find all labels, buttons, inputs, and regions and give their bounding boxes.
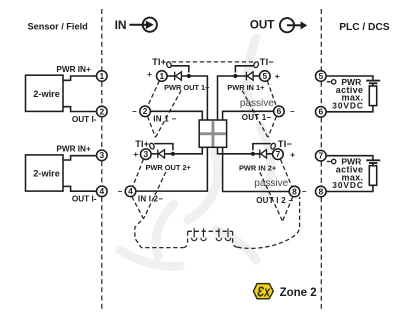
separator PLC side (dashed) [320,9,322,312]
device outline long diagonal left (dashed) [144,172,166,218]
device outline terminal5-terminal6 (dashed) [267,81,276,107]
svg-text:1: 1 [159,71,164,81]
svg-text:PWR IN 1+: PWR IN 1+ [227,83,265,92]
svg-text:OUT I-: OUT I- [72,115,97,124]
device outline terminal4 to corner zigzag (dashed) [132,197,184,248]
device outline terminal6-vertexR (dashed) [268,116,276,137]
device outline bottom right curve (dashed) [237,197,299,249]
terminal 2 device [140,106,151,117]
svg-text:PWR OUT 1+: PWR OUT 1+ [164,83,210,92]
diode D3 [158,150,165,159]
diode D4 [260,150,267,159]
test hook TI+ ch2 [149,143,155,150]
svg-text:IN 1 −: IN 1 − [153,114,176,123]
wire PWR IN+ ch1 [63,76,96,80]
device outline terminal8 arm (dashed) [283,197,293,221]
sensor 2-wire box ch2 [26,155,64,191]
wire terminal1-diode [167,75,174,77]
wire terminal3-diode [151,153,158,155]
svg-text:Sensor / Field: Sensor / Field [28,22,88,32]
current sink symbol ch1 [327,80,336,84]
device outline terminal3-terminal4 (dashed) [133,159,144,186]
bus contact 1 [192,228,197,240]
svg-text:OUT: OUT [250,18,274,31]
terminal 5 device [260,71,271,82]
junction dot ch1 right [233,74,237,78]
current sink symbol ch2 [327,159,336,163]
device outline long diagonal right (dashed) [260,172,282,220]
wire battery-resistor ch2 [372,163,374,166]
device outline bump right corner [233,231,238,247]
bus contact 4 [225,228,230,240]
terminal 1 field [97,71,108,82]
svg-text:Ɛx: Ɛx [257,283,271,300]
svg-text:3: 3 [99,150,104,160]
svg-text:TI−: TI− [278,139,292,149]
resistor load ch1 [369,86,376,106]
svg-text:1: 1 [99,71,104,81]
wire diode to transformer pin ch1 input + [181,76,207,121]
bus line (dashed) [188,230,233,232]
diode D1 [175,72,182,81]
svg-text:2-wire: 2-wire [33,169,60,179]
svg-text:passive: passive [240,98,274,109]
junction dot ch2 right [251,152,255,156]
wire diode-terminal5 [253,75,259,77]
wire terminal5 to supply ch1 [326,76,373,80]
svg-text:IN I 2−: IN I 2− [138,195,163,204]
svg-text:2: 2 [143,106,148,116]
svg-text:TI−: TI− [260,57,274,67]
svg-text:OUT I-: OUT I- [72,195,97,204]
svg-text:4: 4 [128,186,133,196]
wire terminal7 to supply ch2 [326,156,373,160]
svg-text:–: – [118,187,123,196]
terminal 6 field [316,107,327,118]
wire terminal6 to transformer pin ch1 output - [223,111,274,120]
svg-text:–: – [132,107,137,116]
svg-text:OUT I 2 −: OUT I 2 − [256,196,293,205]
wire TI+ loop ch2 [154,144,173,151]
wire OUT I- ch2 [63,186,96,191]
svg-text:6: 6 [318,107,323,117]
svg-text:5: 5 [318,71,323,81]
svg-text:PWR IN+: PWR IN+ [56,65,91,74]
svg-text:8: 8 [318,186,323,196]
wire terminal4 to transformer pin ch2 input - [136,147,208,192]
battery supply ch2 [366,160,380,163]
svg-text:30VDC: 30VDC [332,180,364,190]
svg-text:Zone 2: Zone 2 [280,287,317,299]
device outline terminal1-terminal2 (dashed) [148,81,160,107]
wire transformer pin to diode ch2 output [218,147,260,154]
svg-text:OUT 1−: OUT 1− [242,113,272,122]
test hook TI- ch1 [253,61,259,68]
terminal 4 device [125,186,136,197]
terminal 4 field [97,186,108,197]
diode D2 [246,72,253,81]
test hook TI+ ch1 [166,61,172,68]
transformer T1 [199,120,226,147]
svg-text:7: 7 [318,151,323,161]
wire TI- loop ch2 [253,144,271,151]
svg-text:30VDC: 30VDC [332,100,364,110]
svg-text:6: 6 [277,106,282,116]
svg-text:5: 5 [262,71,267,81]
wire diode to transformer pin ch2 input + [165,147,203,154]
svg-text:–: – [302,187,307,196]
svg-text:PWR IN+: PWR IN+ [56,145,91,154]
terminal 6 device [274,106,285,117]
Ex hexagon logo [253,283,273,300]
svg-text:PLC / DCS: PLC / DCS [339,22,390,33]
svg-text:+: + [275,71,280,81]
IN flow icon [129,18,157,32]
wire PWR IN+ ch2 [63,156,96,160]
svg-text:TI+: TI+ [135,139,149,149]
wire terminal2 to transformer pin ch1 input - [150,111,202,120]
terminal 7 field [316,150,327,161]
bus contact 3 [216,228,221,240]
svg-text:IN: IN [115,18,127,32]
terminal 5 field [316,71,327,82]
terminal 2 field [97,106,108,117]
svg-text:2: 2 [99,106,104,116]
svg-text:TI+: TI+ [152,57,166,67]
wire battery-resistor ch1 [372,83,374,86]
svg-text:2-wire: 2-wire [33,89,60,99]
separator field side (dashed) [101,9,103,312]
svg-text:+: + [290,149,295,159]
wire resistor-terminal6 [326,106,373,112]
wire transformer pin to diode ch1 output [218,76,247,121]
wire diode-terminal7 [267,153,273,155]
terminal 8 field [316,186,327,197]
junction dot ch2 left [171,152,175,156]
wire terminal8 to transformer pin ch2 output - [223,147,290,192]
svg-text:+: + [133,149,138,159]
svg-text:PWR OUT 2+: PWR OUT 2+ [146,163,192,172]
device outline vertexL-up (dashed) [156,90,182,137]
terminal 7 device [273,149,284,160]
svg-text:passive: passive [254,178,288,189]
svg-text:+: + [147,69,152,79]
svg-text:–: – [290,107,295,116]
device outline bump left corner [183,231,187,247]
sensor 2-wire box ch1 [26,75,64,111]
wire resistor-terminal8 [326,185,373,191]
device outline terminal7-terminal8 (dashed) [281,160,292,187]
terminal 3 field [97,150,108,161]
wire TI- loop ch1 [235,66,253,73]
test hook TI- ch2 [270,143,276,150]
battery supply ch1 [366,81,380,84]
bus contact 2 [201,228,206,240]
svg-text:PWR IN 2+: PWR IN 2+ [239,163,277,172]
terminal 8 device [289,186,300,197]
terminal 1 device [157,71,168,82]
OUT flow icon [280,18,301,32]
svg-text:3: 3 [143,149,148,159]
svg-text:7: 7 [276,149,281,159]
terminal 3 device [141,149,152,160]
svg-text:4: 4 [99,186,104,196]
device outline top edge (dashed) [172,61,254,63]
device outline terminal2-vertexL (dashed) [148,116,156,137]
device outline vertexR-up (dashed) [242,91,268,138]
wire TI+ loop ch1 [171,66,189,73]
resistor load ch2 [369,166,376,186]
wire OUT I- ch1 [63,107,96,112]
junction dot ch1 left [187,74,191,78]
